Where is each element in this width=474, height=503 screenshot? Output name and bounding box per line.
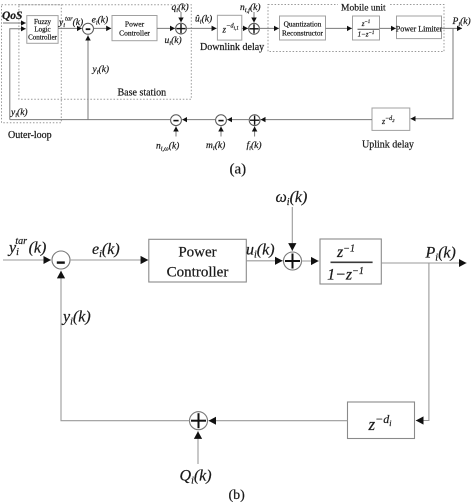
- svg-text:Qi(k): Qi(k): [180, 468, 212, 487]
- box integrator z-1/(1-z-1) (b): [320, 239, 381, 284]
- label yi tar(k) (b): [7, 236, 46, 258]
- wire S2 to downlink delay: [186, 27, 216, 29]
- label ei(k) (b): [92, 241, 120, 260]
- box Fuzzy Logic Controller: [27, 16, 58, 44]
- svg-text:ûi(k): ûi(k): [195, 14, 212, 26]
- svg-text:ei(k): ei(k): [92, 241, 120, 260]
- box Power Limiter: [396, 16, 443, 39]
- wire output Pi(k) (b): [381, 262, 466, 264]
- box Power Controller (b): [149, 239, 247, 282]
- wire input (b): [3, 259, 51, 261]
- wire PC to B2: [246, 260, 282, 262]
- wire junction down to delay: [416, 263, 429, 421]
- wire B1 to Power Controller: [70, 259, 148, 261]
- wire omega input: [291, 207, 293, 251]
- wire nif(k) input: [253, 12, 255, 23]
- label yi tar(k): [58, 16, 83, 30]
- summing junction S3 plus: [249, 23, 260, 34]
- svg-text:ei(k): ei(k): [92, 15, 109, 27]
- summing junction B1 minus: [52, 251, 70, 269]
- svg-text:yi(k): yi(k): [10, 107, 28, 119]
- node QoS: [2, 10, 22, 22]
- label Downlink delay: [200, 42, 264, 53]
- wire output down to uplink: [411, 28, 454, 118]
- svg-text:(a): (a): [230, 162, 247, 178]
- label ui(k) (b): [246, 242, 275, 261]
- svg-text:Outer-loop: Outer-loop: [8, 130, 52, 141]
- wire S4 to S5: [227, 119, 249, 121]
- label ei(k): [92, 15, 109, 27]
- svg-text:ωi(k): ωi(k): [276, 189, 308, 208]
- mobile unit dashed box: [268, 5, 444, 52]
- box delay z^-di: [348, 402, 415, 439]
- label yi(k) (b): [61, 309, 91, 328]
- svg-text:Uplink delay: Uplink delay: [362, 140, 414, 151]
- wire qi(k) input: [180, 12, 182, 22]
- wire B3 to feedback up: [61, 271, 190, 421]
- svg-text:Controller: Controller: [119, 29, 150, 38]
- wire integrator to power limiter: [380, 27, 396, 29]
- wire Qi input: [197, 431, 199, 464]
- label u-hat i(k): [195, 14, 212, 26]
- caption (a): [230, 162, 247, 178]
- wire QR to integrator: [326, 27, 352, 29]
- svg-text:Power: Power: [178, 245, 216, 261]
- summing junction S5 minus: [216, 115, 227, 126]
- svg-text:Pi(k): Pi(k): [425, 245, 456, 264]
- svg-text:Power: Power: [125, 19, 145, 28]
- base station dashed box: [19, 5, 191, 100]
- label Qi(k): [180, 468, 212, 487]
- svg-text:yi(k): yi(k): [92, 64, 110, 76]
- wire feedback up to S1: [87, 35, 89, 119]
- wire S6 output to left feedback: [10, 119, 171, 121]
- summing junction S1 minus: [83, 23, 94, 34]
- label Pi(k) (a): [452, 16, 471, 28]
- label qi(k): [172, 2, 189, 14]
- svg-text:Power Limiter: Power Limiter: [396, 25, 443, 34]
- label Pi(k) (b): [425, 245, 456, 264]
- wire z^-d2 to sum4: [261, 119, 372, 121]
- outer-loop dashed box: [2, 5, 62, 123]
- label nif(k): [240, 2, 261, 14]
- svg-text:Pi(k): Pi(k): [452, 16, 471, 28]
- svg-text:(b): (b): [229, 488, 246, 503]
- wire niw(k) input: [175, 126, 177, 136]
- wire delay to B3: [209, 420, 348, 422]
- svg-text:Reconstructor: Reconstructor: [282, 29, 324, 38]
- svg-text:Base station: Base station: [118, 88, 167, 99]
- svg-text:Controller: Controller: [28, 33, 57, 41]
- label fi(k): [247, 140, 262, 152]
- wire S5 to S6: [182, 119, 215, 121]
- wire y feedback into FLC: [10, 29, 26, 120]
- label Mobile unit: [338, 1, 390, 14]
- svg-text:ui(k): ui(k): [246, 242, 275, 261]
- svg-text:QoS: QoS: [2, 10, 22, 22]
- wire B2 to integrator: [302, 260, 319, 262]
- summing junction S4 plus: [249, 115, 260, 126]
- label Base station: [118, 88, 167, 99]
- box Quantization Reconstructor: [280, 16, 326, 40]
- label yi(k) outer loop: [10, 107, 28, 119]
- wire output Pi(k): [442, 27, 463, 29]
- wire QoS input: [3, 22, 26, 24]
- svg-text:Mobile unit: Mobile unit: [341, 4, 386, 14]
- label Outer-loop: [8, 130, 52, 141]
- label omega i(k): [276, 189, 308, 208]
- box downlink delay z^-d1: [217, 15, 241, 40]
- svg-text:Downlink delay: Downlink delay: [200, 42, 264, 53]
- wire S1 to Power Controller: [94, 27, 112, 29]
- svg-text:ui(k): ui(k): [165, 35, 182, 47]
- svg-text:yi(k): yi(k): [61, 309, 91, 328]
- wire FLC to sum1: [58, 27, 82, 29]
- svg-text:ni,f(k): ni,f(k): [240, 2, 261, 14]
- box integrator z-1/(1-z-1) (a): [353, 16, 380, 40]
- label mi(k): [206, 140, 225, 152]
- summing junction S2 plus: [176, 23, 187, 34]
- label ui(k): [165, 35, 182, 47]
- summing junction S6 minus: [171, 115, 182, 126]
- wire mi(k) input: [220, 126, 222, 136]
- wire S3 to quantization reconstructor: [259, 27, 279, 29]
- caption (b): [229, 488, 246, 503]
- svg-text:fi(k): fi(k): [247, 140, 262, 152]
- wire z^-d1 to sum3: [242, 27, 248, 29]
- label Uplink delay: [362, 140, 414, 151]
- svg-text:Quantization: Quantization: [284, 19, 322, 28]
- wire PC to sum2: [157, 27, 175, 29]
- svg-text:Controller: Controller: [167, 264, 229, 280]
- label yi(k) middle: [92, 64, 110, 76]
- svg-text:mi(k): mi(k): [206, 140, 225, 152]
- wire fi(k) input: [254, 126, 256, 136]
- box uplink delay z^-d2: [372, 108, 410, 130]
- summing junction B2 plus: [284, 252, 302, 270]
- label niw(k): [156, 141, 179, 153]
- box Power Controller (a): [112, 16, 157, 41]
- svg-text:qi(k): qi(k): [172, 2, 189, 14]
- summing junction B3 plus: [190, 412, 208, 430]
